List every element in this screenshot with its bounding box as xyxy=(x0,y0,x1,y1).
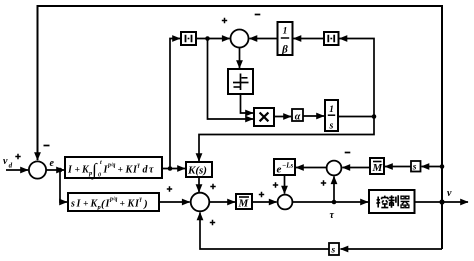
text controller (CJK drawn) xyxy=(376,195,409,208)
wire tau up to sumC xyxy=(333,176,335,202)
wire abs right to 1/beta xyxy=(294,38,325,40)
wire K(s) to sumA xyxy=(198,177,200,192)
wire node down to K(s) top xyxy=(199,117,374,162)
svg-text:): ) xyxy=(143,198,148,210)
block multiplier x xyxy=(254,108,274,126)
wire alpha to 1/s xyxy=(303,115,324,117)
plus sign sumA top xyxy=(210,184,215,189)
svg-text:d: d xyxy=(9,162,13,170)
svg-text:0: 0 xyxy=(98,173,101,179)
svg-text:+: + xyxy=(120,200,125,210)
svg-text:p/q: p/q xyxy=(109,197,118,203)
svg-text:τ: τ xyxy=(149,165,154,176)
node e xyxy=(58,168,63,173)
svg-text:β: β xyxy=(281,44,288,56)
node after abs left xyxy=(205,36,210,41)
wire sumB to controller xyxy=(292,201,368,203)
wire multiplier to alpha xyxy=(274,116,291,118)
block 1/beta xyxy=(278,22,293,55)
svg-text:+: + xyxy=(83,200,88,210)
node after 1/s xyxy=(372,114,377,119)
svg-text:α: α xyxy=(295,112,301,123)
block M2 (M bar) xyxy=(370,158,384,174)
wire 1/s to node xyxy=(338,116,374,118)
minus sign sum1 xyxy=(255,14,261,16)
wire box1 to K(s) xyxy=(162,168,185,170)
wire divider to multiplier xyxy=(241,94,254,113)
block divider xyxy=(228,69,253,94)
plus sign vd xyxy=(15,154,20,159)
wire node up to abs block left xyxy=(170,39,180,169)
svg-text:1: 1 xyxy=(283,27,288,37)
block box1 numerator formula xyxy=(65,157,162,178)
wire s1 to M2 xyxy=(385,166,411,168)
svg-text:s: s xyxy=(412,163,417,173)
char zhi xyxy=(389,195,395,200)
wire M1 to sumB xyxy=(252,201,277,203)
plus sign sumA left xyxy=(167,186,172,191)
plus sign sumC bottom xyxy=(321,180,326,185)
plus sign sumA bottom xyxy=(210,220,215,225)
svg-text:1: 1 xyxy=(329,105,334,115)
wire sum1 down to divider xyxy=(239,48,241,69)
svg-text:e: e xyxy=(277,164,282,176)
svg-text:+: + xyxy=(75,166,80,176)
node v xyxy=(439,199,444,204)
block e^-Ls xyxy=(274,159,295,175)
wire node down to multiplier xyxy=(208,39,254,120)
svg-text:τ: τ xyxy=(330,210,335,221)
wire e branch to box2 xyxy=(60,170,67,202)
svg-text:v: v xyxy=(3,156,8,167)
wire bottom feedback to s2 xyxy=(341,248,443,250)
block K(s) xyxy=(186,162,212,177)
block controller xyxy=(369,190,415,213)
minus sign at input summer xyxy=(44,145,50,147)
svg-text:p/q: p/q xyxy=(107,163,116,169)
wire e to box1 xyxy=(46,169,64,171)
char kong xyxy=(376,197,380,208)
text box2 formula xyxy=(70,197,148,212)
wire e^-Ls to sumB xyxy=(284,175,286,194)
node on v line at s1 xyxy=(440,164,445,169)
summing junction top (sum1) xyxy=(231,30,249,48)
summing junction B xyxy=(278,195,293,210)
svg-text:+: + xyxy=(118,166,123,176)
wire input vd xyxy=(6,169,28,171)
node after box1 xyxy=(168,166,173,171)
block abs right |.| xyxy=(324,32,339,45)
plus sign sumB left xyxy=(259,192,264,197)
svg-text:s: s xyxy=(331,246,336,256)
block M1 (M bar) xyxy=(236,194,252,209)
svg-text:K(s): K(s) xyxy=(187,165,207,177)
plus sign sum1 xyxy=(222,18,227,23)
block box2 denominator formula xyxy=(68,193,159,211)
svg-text:M: M xyxy=(372,162,384,174)
wire controller to output v xyxy=(415,201,469,203)
wire s2 to sumA bottom xyxy=(200,213,329,250)
summing junction input (vd - v) xyxy=(29,161,46,178)
svg-text:−Ls: −Ls xyxy=(282,162,294,170)
svg-text:s: s xyxy=(70,199,75,210)
block s1 xyxy=(411,161,421,172)
wire v line to s1 xyxy=(422,166,443,168)
wire node up to abs right xyxy=(340,39,375,117)
wire outer feedback v to input summer (top) xyxy=(38,6,443,249)
block s2 xyxy=(329,243,339,255)
block abs left |.| xyxy=(181,32,196,45)
char qi xyxy=(401,196,409,199)
block 1/s integrator xyxy=(325,100,338,131)
wire sumA to M1 xyxy=(209,201,235,203)
wire abs left to summer1 xyxy=(196,38,230,40)
svg-text:M: M xyxy=(238,198,250,210)
summing junction C xyxy=(327,161,342,176)
wire box2 to sumA xyxy=(159,201,190,203)
node tau xyxy=(332,200,337,205)
wire 1/beta to sum1 xyxy=(250,38,278,40)
svg-text:v: v xyxy=(447,188,452,199)
plus sign sumB top xyxy=(273,182,278,187)
wire M2 to sumC xyxy=(342,167,370,169)
svg-text:e: e xyxy=(50,158,55,169)
wire sumC to e^-Ls xyxy=(296,167,327,169)
summing junction A xyxy=(191,193,210,212)
svg-text:s: s xyxy=(329,121,334,132)
minus sign sumC xyxy=(345,152,351,154)
text box1 formula xyxy=(67,160,154,180)
block alpha xyxy=(292,109,303,121)
